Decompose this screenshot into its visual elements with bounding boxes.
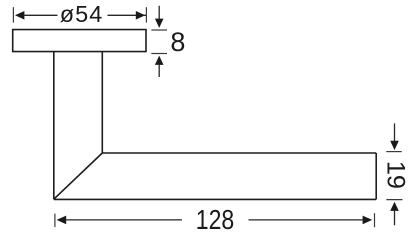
svg-text:ø54: ø54 <box>60 1 104 27</box>
elbow diagonal <box>54 153 103 199</box>
dimension o54: left extension tick <box>12 7 14 22</box>
dimension 19: lower arrowhead (up) <box>390 202 399 211</box>
dimension o54: right extension tick <box>145 7 147 22</box>
dimension 19: lower arrow line <box>394 210 396 225</box>
dimension 8: top extension tick <box>151 29 167 31</box>
handle neck left line <box>53 51 55 199</box>
dimension 128: left arrowhead <box>57 216 67 225</box>
svg-text:8: 8 <box>170 27 185 57</box>
rosette (top plate) <box>13 30 146 52</box>
handle neck right line <box>101 51 103 153</box>
lever top edge <box>102 152 376 154</box>
svg-text:19: 19 <box>381 161 409 189</box>
dimension 128: right extension tick <box>374 213 376 227</box>
dimension 8: lower arrow line <box>158 64 160 77</box>
dimension 19: bottom extension tick <box>386 199 402 201</box>
dimension o54: left arrowhead <box>15 11 24 20</box>
dimension 128: left line segment <box>65 219 182 221</box>
dimension 8: lower arrowhead (up) <box>155 56 164 65</box>
dimension 8: upper arrowhead (down) <box>155 19 164 28</box>
dimension o54: right line segment <box>108 14 147 16</box>
dimension o54: right arrowhead <box>136 11 145 20</box>
dimension 128: left extension tick <box>54 214 56 228</box>
dimension 8: bottom extension tick <box>151 53 167 55</box>
dimension 128: right line segment <box>249 219 364 221</box>
dimension 19: top extension tick <box>386 151 402 153</box>
dimension 19: upper arrow line <box>394 123 396 141</box>
dimension 19: upper arrowhead (down) <box>390 141 399 150</box>
dimension o54: left line segment <box>24 14 58 16</box>
lever right edge <box>375 153 377 199</box>
svg-text:128: 128 <box>196 204 235 235</box>
dimension 8: upper arrow line <box>158 6 160 20</box>
dimension 128: right arrowhead <box>363 216 373 225</box>
lever bottom edge <box>54 198 376 200</box>
